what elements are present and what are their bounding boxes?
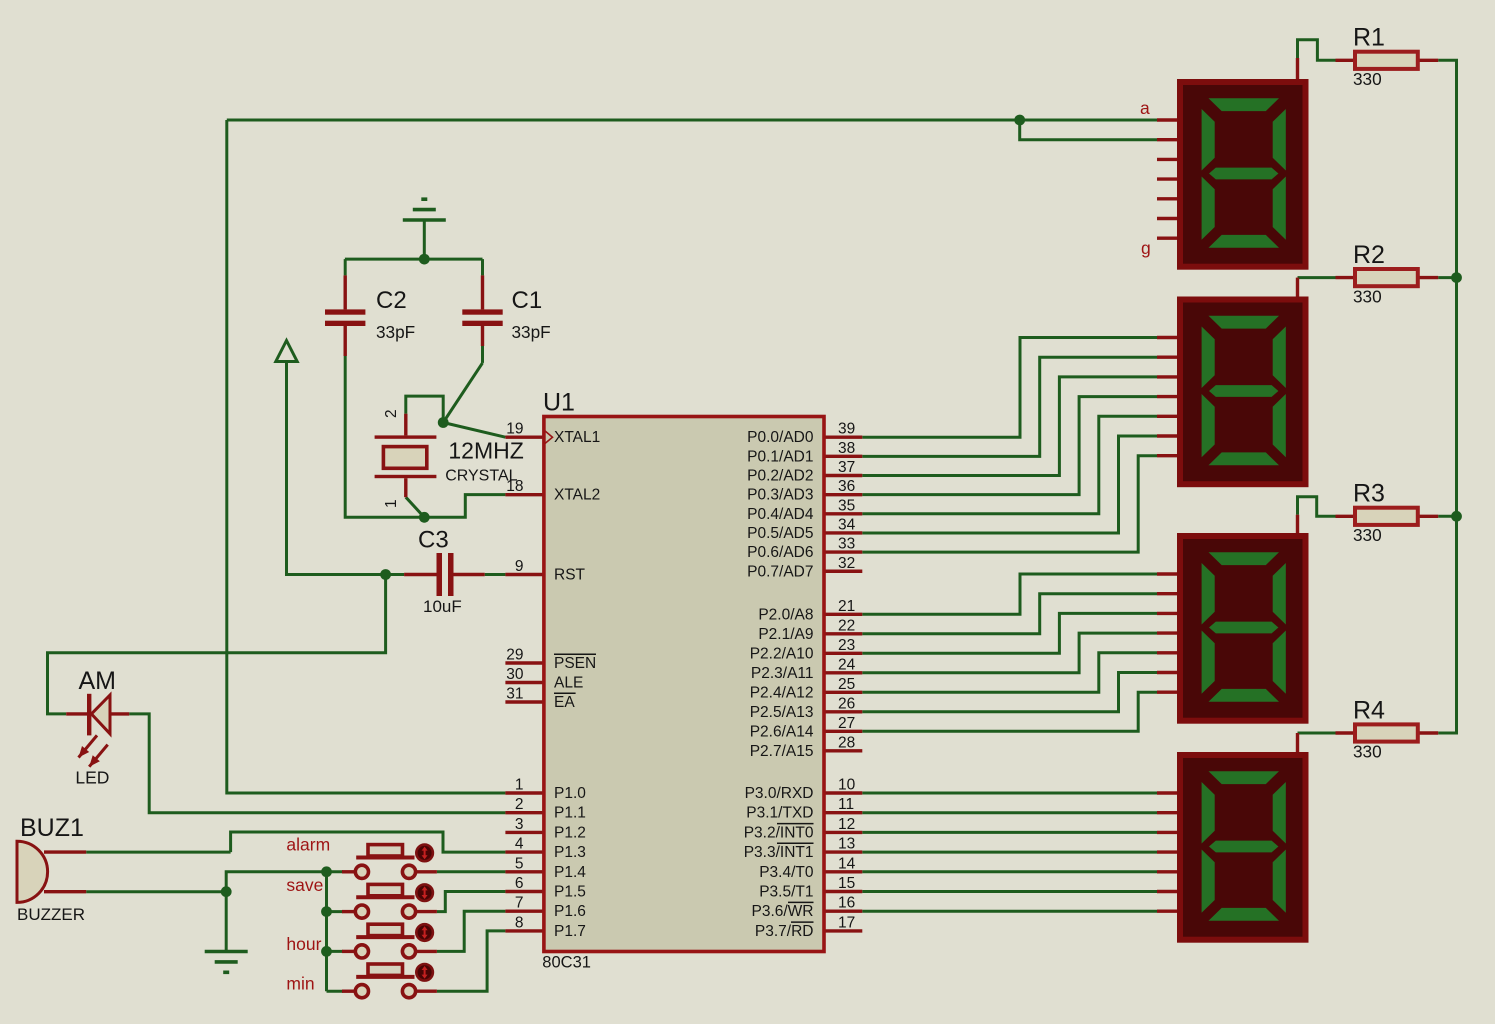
svg-text:25: 25	[838, 676, 855, 693]
svg-text:35: 35	[838, 497, 855, 514]
svg-text:P1.0: P1.0	[554, 785, 586, 802]
svg-text:32: 32	[838, 555, 855, 572]
svg-text:P1.3: P1.3	[554, 844, 586, 861]
svg-text:24: 24	[838, 656, 856, 673]
svg-text:14: 14	[838, 855, 856, 872]
svg-text:P0.7/AD7: P0.7/AD7	[747, 563, 813, 580]
svg-text:P3.0/RXD: P3.0/RXD	[745, 785, 814, 802]
svg-text:33: 33	[838, 536, 855, 553]
svg-text:21: 21	[838, 598, 855, 615]
svg-text:P3.1/TXD: P3.1/TXD	[746, 805, 813, 822]
svg-text:6: 6	[515, 875, 524, 892]
svg-text:1: 1	[515, 777, 524, 794]
svg-text:R3: R3	[1353, 480, 1385, 508]
svg-text:15: 15	[838, 875, 855, 892]
svg-text:R1: R1	[1353, 24, 1385, 52]
svg-text:P3.7/RD: P3.7/RD	[755, 923, 814, 940]
svg-text:ALE: ALE	[554, 675, 583, 692]
svg-text:BUZ1: BUZ1	[20, 814, 84, 842]
svg-text:hour: hour	[286, 934, 321, 954]
svg-text:P0.1/AD1: P0.1/AD1	[747, 448, 813, 465]
svg-text:30: 30	[506, 666, 524, 683]
svg-text:C3: C3	[418, 527, 449, 554]
svg-text:PSEN: PSEN	[554, 655, 596, 672]
svg-text:P2.5/A13: P2.5/A13	[750, 704, 814, 721]
svg-text:P3.4/T0: P3.4/T0	[759, 864, 814, 881]
svg-text:P3.3/INT1: P3.3/INT1	[744, 844, 814, 861]
svg-text:alarm: alarm	[286, 835, 330, 855]
svg-text:38: 38	[838, 440, 855, 457]
svg-text:19: 19	[506, 421, 523, 438]
svg-text:P2.6/A14: P2.6/A14	[750, 723, 814, 740]
svg-text:P1.2: P1.2	[554, 824, 586, 841]
svg-text:27: 27	[838, 715, 855, 732]
svg-text:11: 11	[838, 796, 854, 813]
svg-text:P2.3/A11: P2.3/A11	[751, 665, 814, 682]
svg-text:10uF: 10uF	[423, 597, 462, 616]
svg-text:330: 330	[1353, 69, 1382, 89]
svg-text:save: save	[286, 875, 323, 895]
svg-text:P0.2/AD2: P0.2/AD2	[747, 468, 813, 485]
svg-text:3: 3	[515, 816, 524, 833]
svg-text:AM: AM	[79, 667, 117, 695]
svg-text:P1.7: P1.7	[554, 923, 586, 940]
svg-text:P3.2/INT0: P3.2/INT0	[744, 824, 814, 841]
svg-text:LED: LED	[75, 768, 109, 788]
svg-text:330: 330	[1353, 286, 1382, 306]
svg-text:8: 8	[515, 914, 524, 931]
svg-text:23: 23	[838, 637, 855, 654]
svg-text:36: 36	[838, 478, 855, 495]
svg-text:2: 2	[515, 796, 524, 813]
svg-text:P0.4/AD4: P0.4/AD4	[747, 506, 814, 523]
svg-text:12: 12	[838, 816, 855, 833]
svg-text:29: 29	[506, 647, 523, 664]
svg-text:P3.6/WR: P3.6/WR	[751, 903, 813, 920]
svg-text:22: 22	[838, 617, 855, 634]
svg-text:C2: C2	[376, 287, 407, 314]
svg-text:80C31: 80C31	[542, 954, 591, 972]
svg-text:33pF: 33pF	[512, 322, 551, 342]
svg-text:9: 9	[515, 558, 524, 575]
svg-text:P1.4: P1.4	[554, 864, 586, 881]
svg-text:min: min	[286, 974, 314, 994]
svg-text:P1.6: P1.6	[554, 903, 586, 920]
svg-text:28: 28	[838, 734, 855, 751]
svg-text:EA: EA	[554, 694, 575, 711]
svg-text:12MHZ: 12MHZ	[448, 438, 523, 464]
svg-text:P2.4/A12: P2.4/A12	[750, 684, 814, 701]
svg-text:R2: R2	[1353, 241, 1385, 269]
svg-text:P2.2/A10: P2.2/A10	[750, 645, 814, 662]
svg-text:XTAL1: XTAL1	[554, 429, 600, 446]
svg-text:7: 7	[515, 895, 524, 912]
svg-text:P0.0/AD0: P0.0/AD0	[747, 429, 814, 446]
svg-text:34: 34	[838, 516, 856, 533]
svg-text:P1.1: P1.1	[554, 805, 586, 822]
svg-text:17: 17	[838, 914, 855, 931]
svg-text:31: 31	[506, 686, 523, 703]
svg-text:g: g	[1141, 238, 1151, 258]
svg-text:26: 26	[838, 695, 855, 712]
svg-text:13: 13	[838, 836, 855, 853]
svg-text:2: 2	[383, 409, 400, 418]
svg-text:P2.0/A8: P2.0/A8	[758, 606, 813, 623]
svg-text:U1: U1	[543, 389, 575, 417]
svg-text:37: 37	[838, 459, 855, 476]
svg-text:330: 330	[1353, 525, 1382, 545]
svg-text:R4: R4	[1353, 696, 1385, 724]
svg-text:4: 4	[515, 836, 524, 853]
svg-text:5: 5	[515, 855, 524, 872]
svg-text:1: 1	[383, 499, 400, 508]
svg-text:P0.3/AD3: P0.3/AD3	[747, 487, 813, 504]
svg-text:10: 10	[838, 777, 856, 794]
svg-text:P2.1/A9: P2.1/A9	[758, 626, 813, 643]
svg-text:P3.5/T1: P3.5/T1	[759, 884, 813, 901]
svg-text:CRYSTAL: CRYSTAL	[445, 467, 517, 484]
svg-text:16: 16	[838, 895, 855, 912]
svg-text:P0.5/AD5: P0.5/AD5	[747, 525, 813, 542]
svg-text:RST: RST	[554, 567, 586, 584]
svg-text:33pF: 33pF	[376, 322, 415, 342]
svg-text:C1: C1	[512, 287, 543, 314]
svg-text:39: 39	[838, 421, 855, 438]
svg-text:P2.7/A15: P2.7/A15	[750, 743, 814, 760]
svg-text:P0.6/AD6: P0.6/AD6	[747, 544, 813, 561]
svg-text:a: a	[1140, 98, 1150, 118]
svg-text:330: 330	[1353, 742, 1382, 762]
svg-text:P1.5: P1.5	[554, 884, 586, 901]
svg-text:XTAL2: XTAL2	[554, 487, 600, 504]
svg-text:BUZZER: BUZZER	[17, 905, 85, 924]
